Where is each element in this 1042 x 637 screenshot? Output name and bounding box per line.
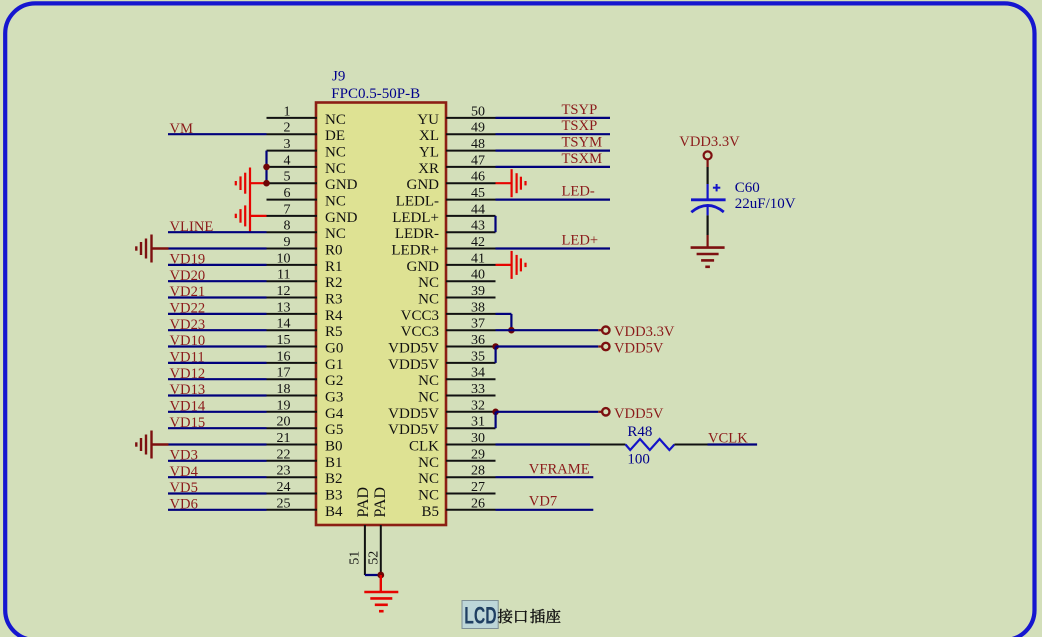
wire VD4 (pin 23): [168, 476, 267, 478]
svg-text:C60: C60: [735, 180, 760, 196]
svg-text:2: 2: [284, 121, 291, 136]
svg-text:G5: G5: [325, 422, 343, 438]
pin 13 (R4): [267, 300, 344, 324]
svg-text:VD7: VD7: [529, 494, 557, 510]
svg-text:31: 31: [471, 415, 485, 430]
wire ground stem pin 21: [152, 443, 169, 445]
svg-text:VLINE: VLINE: [170, 219, 214, 235]
svg-text:LED+: LED+: [562, 233, 599, 249]
svg-text:NC: NC: [325, 161, 346, 177]
svg-text:1: 1: [284, 104, 291, 119]
svg-text:23: 23: [277, 464, 291, 479]
wire TSYM (pin 48): [496, 150, 611, 152]
junction pin 36: [492, 343, 499, 350]
svg-text:VDD5V: VDD5V: [388, 422, 439, 438]
svg-text:B3: B3: [325, 488, 343, 504]
svg-text:20: 20: [277, 415, 291, 430]
power port VDD5V (pin 32): [598, 411, 601, 413]
svg-text:YU: YU: [417, 112, 439, 128]
pin 15 (G0): [267, 333, 344, 357]
wire pin 9: [169, 247, 267, 249]
svg-text:12: 12: [277, 284, 291, 299]
wire pin 32: [496, 411, 599, 413]
wire pins 44-43 tie: [494, 216, 496, 232]
wire VD6 (pin 25): [168, 509, 267, 511]
pin 1 (NC): [267, 104, 346, 128]
pin 10 (R1): [267, 251, 343, 275]
wire VD3 (pin 22): [168, 460, 267, 462]
pin 21 (B0): [267, 431, 343, 455]
svg-text:VDD5V: VDD5V: [614, 341, 664, 357]
wire VM (pin 2): [168, 133, 267, 135]
svg-text:NC: NC: [325, 145, 346, 161]
svg-text:G2: G2: [325, 373, 343, 389]
svg-text:B4: B4: [325, 504, 343, 520]
pin 7 (GND): [267, 202, 358, 226]
svg-text:7: 7: [284, 202, 291, 217]
pin 39 (NC): [418, 284, 495, 308]
junction pin 5: [263, 180, 270, 187]
svg-text:VDD3.3V: VDD3.3V: [614, 324, 675, 340]
svg-text:VD6: VD6: [170, 497, 198, 513]
pin 40 (NC): [418, 268, 495, 292]
junction pin 37: [508, 327, 515, 334]
svg-text:36: 36: [471, 333, 485, 348]
svg-text:14: 14: [277, 317, 291, 332]
svg-text:B0: B0: [325, 439, 343, 455]
connector J9 body: [316, 103, 446, 526]
pin 46 (GND): [407, 170, 496, 194]
caption highlight box: [462, 601, 498, 629]
pin 24 (B3): [267, 480, 343, 504]
wire pins 32-31 tie: [495, 412, 497, 428]
pin 23 (B2): [267, 464, 343, 488]
pin 25 (B4): [267, 496, 344, 520]
svg-text:43: 43: [471, 219, 485, 234]
ground symbol below C60: [691, 248, 725, 267]
svg-text:VD5: VD5: [170, 480, 198, 496]
svg-text:VD4: VD4: [170, 464, 199, 480]
svg-text:VD14: VD14: [170, 399, 206, 415]
wire VD19 (pin 10): [168, 264, 267, 266]
svg-text:52: 52: [367, 551, 382, 565]
svg-text:18: 18: [277, 382, 291, 397]
svg-text:17: 17: [277, 366, 291, 381]
pin 47 (XR): [418, 153, 495, 177]
svg-text:TSXP: TSXP: [562, 118, 598, 134]
svg-text:35: 35: [471, 349, 485, 364]
svg-text:VD12: VD12: [170, 366, 206, 382]
svg-text:LCD: LCD: [464, 602, 496, 629]
svg-text:VCC3: VCC3: [401, 308, 439, 324]
svg-text:8: 8: [284, 219, 291, 234]
wire pin 38 to VDD3.3V: [496, 313, 512, 315]
svg-text:NC: NC: [418, 471, 439, 487]
pin 51 (PAD): [348, 487, 372, 575]
svg-text:TSYP: TSYP: [562, 102, 598, 118]
svg-text:G0: G0: [325, 341, 343, 357]
svg-text:44: 44: [471, 202, 485, 217]
wire ground stem pin 5: [250, 182, 267, 184]
svg-text:10: 10: [277, 251, 291, 266]
ground symbol at pin 46: [512, 169, 526, 197]
svg-text:NC: NC: [418, 373, 439, 389]
svg-text:VDD5V: VDD5V: [388, 357, 439, 373]
svg-text:GND: GND: [325, 210, 358, 226]
svg-text:VDD3.3V: VDD3.3V: [679, 134, 740, 150]
svg-text:3: 3: [284, 137, 291, 152]
pin 29 (NC): [418, 447, 495, 471]
svg-text:9: 9: [284, 235, 291, 250]
wire ground stem pin 46: [496, 182, 512, 184]
svg-text:TSYM: TSYM: [562, 135, 603, 151]
wire pads 51-52 tie: [365, 574, 381, 576]
wire pins 36-35 tie: [495, 347, 497, 363]
ground symbol at pin 9: [136, 235, 151, 263]
pin 35 (VDD5V): [388, 349, 495, 373]
junction pin 32: [492, 409, 499, 416]
ground symbol at pin 41: [512, 251, 526, 279]
svg-text:6: 6: [284, 186, 291, 201]
svg-text:VDD5V: VDD5V: [388, 406, 439, 422]
svg-text:16: 16: [277, 349, 291, 364]
svg-text:VCC3: VCC3: [401, 324, 439, 340]
svg-text:LEDR-: LEDR-: [395, 226, 439, 242]
svg-text:PAD: PAD: [355, 487, 372, 518]
svg-text:FPC0.5-50P-B: FPC0.5-50P-B: [331, 86, 420, 102]
pin 48 (YL): [419, 137, 496, 161]
wire VLINE (pin 8): [168, 231, 267, 233]
pin 52 (PAD): [367, 487, 389, 575]
pin 37 (VCC3): [401, 317, 496, 341]
svg-text:YL: YL: [419, 145, 439, 161]
svg-text:32: 32: [471, 398, 485, 413]
wire pin 36: [496, 345, 599, 347]
svg-text:28: 28: [471, 464, 485, 479]
svg-text:VD22: VD22: [170, 301, 206, 317]
svg-text:LEDL+: LEDL+: [392, 210, 439, 226]
wire VFRAME (pin 28): [496, 476, 594, 478]
wire TSXP (pin 49): [496, 133, 611, 135]
caption text 接口插座 (drawn glyphs): [498, 609, 513, 623]
pin 2 (DE): [267, 121, 346, 145]
svg-text:VD13: VD13: [170, 382, 206, 398]
resistor R48: [590, 424, 708, 468]
wire VD13 (pin 18): [168, 394, 267, 396]
svg-text:38: 38: [471, 300, 485, 315]
svg-text:37: 37: [471, 317, 485, 332]
power port VDD3.3V: [598, 329, 601, 331]
pin 26 (B5): [421, 496, 495, 520]
svg-text:22uF/10V: 22uF/10V: [735, 196, 796, 212]
wire pin 21: [169, 443, 267, 445]
wire VD7 (pin 26): [496, 509, 594, 511]
ground symbol at pin 21: [136, 431, 151, 459]
power port VDD5V (pin 36): [598, 345, 601, 347]
ground symbol below pads: [364, 592, 398, 611]
svg-text:R5: R5: [325, 324, 343, 340]
wire VCLK: [708, 443, 758, 445]
svg-text:NC: NC: [418, 488, 439, 504]
wire pins 3-4-5 tie: [265, 151, 267, 184]
svg-text:GND: GND: [407, 177, 440, 193]
svg-text:R2: R2: [325, 275, 343, 291]
svg-text:LED-: LED-: [562, 184, 595, 200]
svg-text:50: 50: [471, 104, 485, 119]
svg-text:15: 15: [277, 333, 291, 348]
svg-text:GND: GND: [325, 177, 358, 193]
svg-text:29: 29: [471, 447, 485, 462]
pin 44 (LEDL+): [392, 202, 495, 226]
svg-text:39: 39: [471, 284, 485, 299]
pin 6 (NC): [267, 186, 346, 210]
pin 20 (G5): [267, 415, 344, 439]
svg-text:VDD5V: VDD5V: [388, 341, 439, 357]
svg-text:24: 24: [277, 480, 291, 495]
svg-text:100: 100: [627, 452, 650, 468]
junction pin 4: [263, 164, 270, 171]
svg-text:VM: VM: [170, 121, 194, 137]
wire VD23 (pin 14): [168, 329, 267, 331]
pin 41 (GND): [407, 251, 496, 275]
svg-text:VDD5V: VDD5V: [614, 406, 664, 422]
svg-text:NC: NC: [325, 226, 346, 242]
wire TSXM (pin 47): [496, 166, 611, 168]
pin 28 (NC): [418, 464, 495, 488]
pin 36 (VDD5V): [388, 333, 495, 357]
svg-text:48: 48: [471, 137, 485, 152]
svg-text:47: 47: [471, 153, 485, 168]
svg-text:R1: R1: [325, 259, 343, 275]
svg-text:G4: G4: [325, 406, 344, 422]
svg-text:B1: B1: [325, 455, 343, 471]
pin 14 (R5): [267, 317, 343, 341]
wire VD15 (pin 20): [168, 427, 267, 429]
wire ground stem pin 9: [152, 247, 169, 249]
svg-text:XL: XL: [419, 128, 439, 144]
pin 12 (R3): [267, 284, 343, 308]
svg-text:51: 51: [348, 551, 363, 565]
wire ground stem pin 41: [496, 264, 512, 266]
pin 4 (NC): [267, 153, 346, 177]
pin 8 (NC): [267, 219, 346, 243]
svg-text:LEDL-: LEDL-: [396, 194, 439, 210]
junction pad net: [377, 572, 384, 579]
pin 16 (G1): [267, 349, 344, 373]
capacitor C60: [691, 180, 796, 215]
svg-text:41: 41: [471, 251, 485, 266]
wire VD12 (pin 17): [168, 378, 267, 380]
svg-text:VD15: VD15: [170, 415, 206, 431]
pin 11 (R2): [267, 268, 343, 292]
svg-text:B5: B5: [421, 504, 439, 520]
svg-text:13: 13: [277, 300, 291, 315]
pin 45 (LEDL-): [396, 186, 496, 210]
svg-text:5: 5: [284, 170, 291, 185]
wire TSYP (pin 50): [496, 117, 611, 119]
svg-text:19: 19: [277, 398, 291, 413]
svg-text:21: 21: [277, 431, 291, 446]
ground symbol at pin 7: [236, 205, 245, 226]
wire VD5 (pin 24): [168, 492, 267, 494]
svg-text:NC: NC: [325, 194, 346, 210]
wire pin 37: [496, 329, 599, 331]
pin 27 (NC): [418, 480, 495, 504]
pin 38 (VCC3): [401, 300, 496, 324]
svg-text:DE: DE: [325, 128, 345, 144]
svg-text:VD3: VD3: [170, 448, 198, 464]
svg-text:30: 30: [471, 431, 485, 446]
svg-text:CLK: CLK: [409, 439, 439, 455]
pin 22 (B1): [267, 447, 343, 471]
wire VD21 (pin 12): [168, 296, 267, 298]
pin 31 (VDD5V): [388, 415, 495, 439]
svg-text:VD19: VD19: [170, 252, 206, 268]
wire ground bus (pins 5,7): [249, 168, 251, 233]
pin 30 (CLK): [409, 431, 496, 455]
wire C60 to ground: [706, 215, 708, 235]
wire ground stem pin 7: [250, 215, 267, 217]
svg-text:22: 22: [277, 447, 291, 462]
svg-text:NC: NC: [418, 390, 439, 406]
svg-text:VCLK: VCLK: [708, 430, 748, 446]
svg-text:R48: R48: [627, 424, 652, 440]
svg-text:4: 4: [284, 153, 291, 168]
svg-text:45: 45: [471, 186, 485, 201]
svg-text:PAD: PAD: [372, 487, 389, 518]
pin 43 (LEDR-): [395, 219, 496, 243]
wire VD11 (pin 16): [168, 362, 267, 364]
svg-text:VD11: VD11: [170, 350, 205, 366]
pin 3 (NC): [267, 137, 346, 161]
svg-text:NC: NC: [325, 112, 346, 128]
pin 17 (G2): [267, 366, 344, 390]
svg-text:25: 25: [277, 496, 291, 511]
svg-text:R0: R0: [325, 243, 343, 259]
svg-text:27: 27: [471, 480, 485, 495]
svg-text:LEDR+: LEDR+: [391, 243, 439, 259]
svg-text:B2: B2: [325, 471, 343, 487]
svg-text:VFRAME: VFRAME: [529, 462, 590, 478]
wire pad net to ground: [380, 575, 382, 592]
svg-text:G1: G1: [325, 357, 343, 373]
wire VDD3.3V to C60: [706, 167, 708, 184]
power port VDD3.3V (top): [679, 134, 740, 167]
svg-text:TSXM: TSXM: [562, 151, 603, 167]
svg-text:VD20: VD20: [170, 268, 206, 284]
ground symbol at pin 5: [236, 173, 245, 194]
svg-text:G3: G3: [325, 390, 343, 406]
wire VD14 (pin 19): [168, 411, 267, 413]
wire VD20 (pin 11): [168, 280, 267, 282]
pin 42 (LEDR+): [391, 235, 495, 259]
svg-text:40: 40: [471, 268, 485, 283]
pin 49 (XL): [419, 121, 496, 145]
pin 50 (YU): [417, 104, 495, 128]
svg-text:GND: GND: [407, 259, 440, 275]
svg-text:11: 11: [277, 268, 290, 283]
svg-text:VD10: VD10: [170, 333, 206, 349]
svg-text:26: 26: [471, 496, 485, 511]
svg-text:34: 34: [471, 366, 485, 381]
svg-text:NC: NC: [418, 292, 439, 308]
svg-text:42: 42: [471, 235, 485, 250]
pin 34 (NC): [418, 366, 495, 390]
svg-text:NC: NC: [418, 275, 439, 291]
wire VD22 (pin 13): [168, 313, 267, 315]
svg-text:VD23: VD23: [170, 317, 206, 333]
pin 19 (G4): [267, 398, 344, 422]
svg-text:R4: R4: [325, 308, 343, 324]
svg-text:NC: NC: [418, 455, 439, 471]
svg-text:R3: R3: [325, 292, 343, 308]
wire pin 30 to R48: [496, 443, 591, 445]
svg-text:VD21: VD21: [170, 284, 206, 300]
pin 5 (GND): [267, 170, 358, 194]
plus sign: [713, 187, 720, 189]
pin 18 (G3): [267, 382, 344, 406]
wire VD10 (pin 15): [168, 345, 267, 347]
svg-text:J9: J9: [332, 69, 345, 85]
svg-text:XR: XR: [418, 161, 439, 177]
wire LED- (pin 45): [496, 199, 611, 201]
pin 32 (VDD5V): [388, 398, 495, 422]
svg-text:46: 46: [471, 170, 485, 185]
svg-text:33: 33: [471, 382, 485, 397]
pin 9 (R0): [267, 235, 343, 259]
wire LED+ (pin 42): [496, 247, 611, 249]
pin 33 (NC): [418, 382, 495, 406]
svg-text:49: 49: [471, 121, 485, 136]
